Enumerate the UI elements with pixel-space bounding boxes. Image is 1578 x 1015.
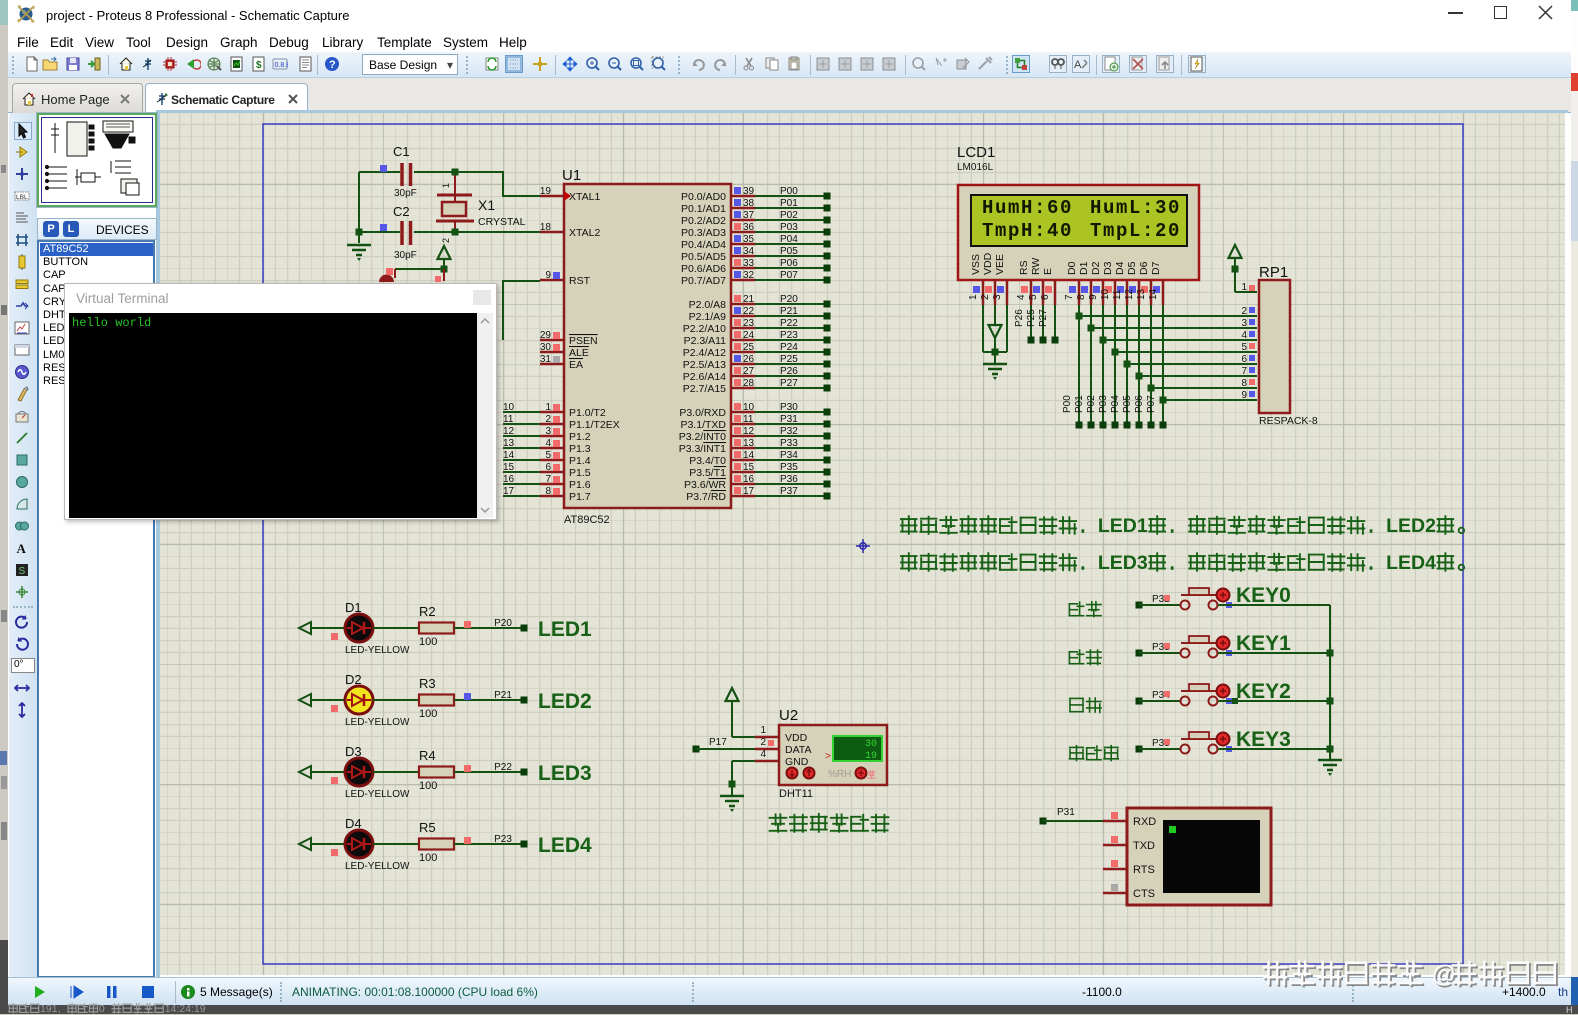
svg-text:17: 17 xyxy=(503,486,515,497)
svg-text:35: 35 xyxy=(743,234,755,245)
svg-text:KEY1: KEY1 xyxy=(1236,632,1291,655)
svg-text:P1.2: P1.2 xyxy=(569,431,591,443)
ground (keys) xyxy=(1318,759,1342,762)
svg-text:VDD: VDD xyxy=(785,732,808,744)
svg-text:P0.5/AD5: P0.5/AD5 xyxy=(681,251,726,263)
U1 pin 33 net P06 xyxy=(681,258,830,275)
svg-text:13: 13 xyxy=(743,438,755,449)
svg-text:21: 21 xyxy=(743,294,755,305)
svg-text:19: 19 xyxy=(865,751,877,762)
svg-text:D2: D2 xyxy=(1090,261,1102,275)
svg-text:%RH: %RH xyxy=(828,769,851,780)
svg-text:19: 19 xyxy=(540,186,552,197)
svg-text:P3.6/WR: P3.6/WR xyxy=(684,479,726,491)
U1 pin 32 net P07 xyxy=(681,270,830,287)
svg-text:9: 9 xyxy=(1241,390,1247,401)
svg-text:TmpH:40: TmpH:40 xyxy=(982,220,1073,242)
LCD net P27 xyxy=(1038,305,1059,344)
svg-text:1: 1 xyxy=(760,725,766,736)
svg-text:1: 1 xyxy=(441,183,451,188)
button KEY0 xyxy=(1069,584,1330,617)
svg-text:D4: D4 xyxy=(1114,261,1126,275)
canvas with schematic xyxy=(160,113,1565,975)
svg-text:13: 13 xyxy=(503,438,515,449)
svg-text:VEE: VEE xyxy=(994,254,1006,275)
resistor R4 xyxy=(373,748,454,792)
svg-text:LED2: LED2 xyxy=(1386,515,1436,537)
wire RST net xyxy=(502,280,504,340)
U1 pin 18 xyxy=(540,222,601,239)
Virtual Terminal window xyxy=(64,283,497,520)
svg-text:P05: P05 xyxy=(1122,395,1133,413)
svg-text:RXD: RXD xyxy=(1133,816,1156,828)
cursor marker xyxy=(856,539,870,553)
svg-text:P07: P07 xyxy=(780,270,798,281)
U1 pin 1 xyxy=(503,402,606,419)
LED D3 xyxy=(299,744,410,800)
U1 pin 27 net P26 xyxy=(683,366,831,383)
wire D3 to RP1 xyxy=(1098,305,1257,429)
svg-text:8: 8 xyxy=(1241,378,1247,389)
svg-text:A: A xyxy=(17,541,27,556)
U1 pin 13 net P33 xyxy=(679,438,831,455)
svg-text:37: 37 xyxy=(743,210,755,221)
svg-text:4: 4 xyxy=(760,749,766,760)
svg-text:P20: P20 xyxy=(780,294,798,305)
svg-text:LED2: LED2 xyxy=(538,690,592,713)
svg-text:P0.1/AD1: P0.1/AD1 xyxy=(681,203,726,215)
svg-text:P2.6/A14: P2.6/A14 xyxy=(683,371,726,383)
U1 pin 29 xyxy=(540,330,598,347)
svg-text:P0.2/AD2: P0.2/AD2 xyxy=(681,215,726,227)
svg-text:P26: P26 xyxy=(1014,309,1025,327)
svg-text:LED1: LED1 xyxy=(1098,515,1148,537)
U1 pin 5 xyxy=(503,450,591,467)
svg-text:U2: U2 xyxy=(779,707,798,724)
svg-text:P1.1/T2EX: P1.1/T2EX xyxy=(569,419,620,431)
svg-text:P27: P27 xyxy=(780,378,798,389)
svg-text:33: 33 xyxy=(743,258,755,269)
button KEY2 xyxy=(1070,680,1330,713)
RP1 pin 5 xyxy=(1241,342,1255,353)
svg-text:RTS: RTS xyxy=(1133,864,1155,876)
svg-text:P22: P22 xyxy=(780,318,798,329)
svg-text:P21: P21 xyxy=(494,690,512,701)
svg-text:14:24:19: 14:24:19 xyxy=(165,1003,206,1014)
toolbar xyxy=(8,52,1571,78)
svg-text:38: 38 xyxy=(743,198,755,209)
svg-text:6: 6 xyxy=(1040,294,1051,300)
svg-text:3: 3 xyxy=(545,426,551,437)
svg-text:28: 28 xyxy=(743,378,755,389)
svg-text:100: 100 xyxy=(419,708,437,720)
U1 pin 4 xyxy=(503,438,591,455)
U1 pin 12 net P32 xyxy=(679,426,831,443)
svg-text:P00: P00 xyxy=(780,186,798,197)
svg-text:P2.4/A12: P2.4/A12 xyxy=(683,347,726,359)
svg-text:5: 5 xyxy=(1028,294,1039,300)
svg-text:P3.4/T0: P3.4/T0 xyxy=(689,455,726,467)
svg-text:4: 4 xyxy=(1016,294,1027,300)
svg-text:P23: P23 xyxy=(780,330,798,341)
RP1 pin 2 xyxy=(1241,306,1255,317)
svg-text:191,: 191, xyxy=(40,1003,60,1014)
power arrow (RP1) xyxy=(1229,245,1242,258)
wire P23 xyxy=(454,834,528,848)
resistor R2 xyxy=(373,604,454,648)
svg-text:CTS: CTS xyxy=(1133,888,1155,900)
wire P21 xyxy=(454,690,528,704)
U1 pin 22 net P21 xyxy=(689,306,831,323)
left vertical toolbar xyxy=(9,113,37,977)
svg-text:11: 11 xyxy=(503,414,514,425)
terminal pin TXD xyxy=(1103,836,1155,852)
svg-text:LED1: LED1 xyxy=(538,618,592,641)
U1 pin 7 xyxy=(503,474,591,491)
svg-text:24: 24 xyxy=(743,330,755,341)
svg-text:P25: P25 xyxy=(1026,309,1037,327)
svg-text:D3: D3 xyxy=(345,744,362,759)
LCD net P26 xyxy=(1014,305,1035,344)
annotation line 2 xyxy=(901,553,917,571)
svg-text:LED-YELLOW: LED-YELLOW xyxy=(345,645,410,656)
svg-text:P0.6/AD6: P0.6/AD6 xyxy=(681,263,726,275)
LCD1 pin 13 D6 xyxy=(1136,261,1151,305)
svg-text:31: 31 xyxy=(540,354,552,365)
svg-text:P1.4: P1.4 xyxy=(569,455,591,467)
svg-text:34: 34 xyxy=(743,246,755,257)
svg-text:LBL: LBL xyxy=(16,194,28,201)
capacitor C2 xyxy=(359,231,400,233)
XTAL1 clock marker xyxy=(564,191,571,201)
svg-text:P2.2/A10: P2.2/A10 xyxy=(683,323,726,335)
svg-text:D3: D3 xyxy=(1102,261,1114,275)
svg-text:ALE: ALE xyxy=(569,347,589,359)
U1 pin 26 net P25 xyxy=(683,354,831,371)
svg-text:P27: P27 xyxy=(1038,309,1049,327)
power arrow (RST circuit) xyxy=(438,246,451,259)
devices list xyxy=(37,240,155,978)
svg-text:LM016L: LM016L xyxy=(957,162,994,173)
svg-text:P03: P03 xyxy=(1098,395,1109,413)
svg-text:8: 8 xyxy=(545,486,551,497)
svg-text:D1: D1 xyxy=(345,600,362,615)
svg-text:R2: R2 xyxy=(419,604,436,619)
svg-text:P06: P06 xyxy=(1134,395,1145,413)
svg-text:P3.1/TXD: P3.1/TXD xyxy=(680,419,726,431)
svg-text:P2.1/A9: P2.1/A9 xyxy=(689,311,727,323)
svg-text:26: 26 xyxy=(743,354,755,365)
svg-text:R5: R5 xyxy=(419,820,436,835)
svg-text:1: 1 xyxy=(968,294,979,300)
svg-text:4: 4 xyxy=(545,438,551,449)
svg-text:36: 36 xyxy=(743,222,755,233)
RP1 pin 7 xyxy=(1241,366,1255,377)
svg-text:10: 10 xyxy=(743,402,755,413)
svg-text:12: 12 xyxy=(503,426,515,437)
svg-text:RW: RW xyxy=(1030,258,1042,275)
svg-text:D7: D7 xyxy=(1150,261,1162,275)
svg-text:D1: D1 xyxy=(1078,261,1090,275)
svg-text:30pF: 30pF xyxy=(394,250,417,261)
ground (crystal) xyxy=(347,244,371,247)
svg-text:2: 2 xyxy=(545,414,551,425)
wire D0 to RP1 xyxy=(1062,305,1257,429)
resistor R3 xyxy=(373,676,454,720)
svg-text:KEY3: KEY3 xyxy=(1236,728,1291,751)
chip U1 AT89C52 body xyxy=(564,184,731,508)
capacitor C1 xyxy=(359,171,400,173)
RP1 pin 6 xyxy=(1241,354,1255,365)
svg-text:A: A xyxy=(1074,59,1082,71)
svg-text:DATA: DATA xyxy=(785,744,811,756)
svg-text:P04: P04 xyxy=(1110,395,1121,413)
left background sliver xyxy=(0,0,8,25)
svg-text:P30: P30 xyxy=(780,402,798,413)
svg-text:14: 14 xyxy=(743,450,755,461)
svg-text:KEY0: KEY0 xyxy=(1236,584,1291,607)
crystal X1 xyxy=(454,172,456,196)
LCD1 pin 8 D1 xyxy=(1076,261,1091,305)
U1 pin 2 xyxy=(503,414,620,431)
svg-text:RST: RST xyxy=(569,275,591,287)
svg-text:15: 15 xyxy=(503,462,515,473)
svg-text:30: 30 xyxy=(865,739,877,750)
svg-text:P1.5: P1.5 xyxy=(569,467,591,479)
svg-text:6: 6 xyxy=(545,462,551,473)
svg-text:R3: R3 xyxy=(419,676,436,691)
svg-text:0.8.8: 0.8.8 xyxy=(275,62,289,69)
svg-text:LCD1: LCD1 xyxy=(957,144,995,161)
svg-text:8: 8 xyxy=(1076,294,1087,300)
RP1 pin 8 xyxy=(1241,378,1255,389)
svg-text:16: 16 xyxy=(503,474,515,485)
svg-text:P2.0/A8: P2.0/A8 xyxy=(689,299,727,311)
svg-text:25: 25 xyxy=(743,342,755,353)
svg-text:39: 39 xyxy=(743,186,755,197)
svg-text:P1.7: P1.7 xyxy=(569,491,591,503)
svg-text:P35: P35 xyxy=(780,462,798,473)
svg-text:32: 32 xyxy=(743,270,755,281)
LED D4 xyxy=(299,816,410,872)
svg-text:?: ? xyxy=(329,59,336,71)
svg-text:LED-YELLOW: LED-YELLOW xyxy=(345,789,410,800)
svg-text:P0.4/AD4: P0.4/AD4 xyxy=(681,239,726,251)
DHT buttons xyxy=(787,768,798,779)
U2 pin 2 DATA xyxy=(755,748,779,751)
svg-text:LED-YELLOW: LED-YELLOW xyxy=(345,861,410,872)
wire C1-C2 left vertical xyxy=(358,172,360,243)
RP1 pin 9 xyxy=(1241,390,1255,401)
LED D1 xyxy=(299,600,410,656)
svg-text:P07: P07 xyxy=(1146,395,1157,413)
button KEY3 xyxy=(1069,728,1330,761)
U2 pin 1 VDD xyxy=(755,736,779,739)
svg-text:P17: P17 xyxy=(709,737,727,748)
svg-text:30: 30 xyxy=(540,342,552,353)
svg-text:DHT11: DHT11 xyxy=(779,788,813,800)
svg-text:100: 100 xyxy=(419,780,437,792)
ground (LCD) xyxy=(983,363,1007,366)
LCD screen xyxy=(971,195,1187,246)
U2 power arrow xyxy=(726,688,739,701)
U1 pin 28 net P27 xyxy=(683,378,831,395)
svg-text:5: 5 xyxy=(545,450,551,461)
svg-text:12: 12 xyxy=(743,426,755,437)
U1 pin 37 net P02 xyxy=(681,210,830,227)
svg-text:11: 11 xyxy=(743,414,754,425)
svg-text:100: 100 xyxy=(419,852,437,864)
svg-text:HumH:60: HumH:60 xyxy=(982,197,1073,219)
svg-text:1: 1 xyxy=(1241,282,1247,293)
svg-text:P03: P03 xyxy=(780,222,798,233)
svg-text:P05: P05 xyxy=(780,246,798,257)
U1 pin 19 xyxy=(540,186,601,203)
svg-text:30pF: 30pF xyxy=(394,188,417,199)
virtual terminal component xyxy=(1127,808,1271,905)
svg-text:P36: P36 xyxy=(780,474,798,485)
U1 pin 15 net P35 xyxy=(689,462,830,479)
svg-text:XTAL1: XTAL1 xyxy=(569,191,600,203)
svg-text:E: E xyxy=(1042,268,1054,275)
button KEY1 xyxy=(1069,632,1330,665)
svg-text:P2.5/A13: P2.5/A13 xyxy=(683,359,726,371)
svg-text:P1.0/T2: P1.0/T2 xyxy=(569,407,606,419)
svg-text:P3.3/INT1: P3.3/INT1 xyxy=(679,443,726,455)
svg-text:P33: P33 xyxy=(780,438,798,449)
LCD net P25 xyxy=(1026,305,1047,344)
svg-text:P32: P32 xyxy=(780,426,798,437)
svg-text:17: 17 xyxy=(743,486,755,497)
annotation line 1 xyxy=(901,516,917,534)
wire D6 to RP1 xyxy=(1134,305,1257,429)
svg-text:P2.7/A15: P2.7/A15 xyxy=(683,383,726,395)
svg-text:1: 1 xyxy=(545,402,551,413)
svg-text:27: 27 xyxy=(743,366,755,377)
svg-text:16: 16 xyxy=(743,474,755,485)
svg-text:P1.3: P1.3 xyxy=(569,443,591,455)
bottom strip xyxy=(0,1005,1578,1014)
svg-text:U1: U1 xyxy=(562,167,581,184)
label 温湿度传感器 xyxy=(770,814,787,831)
LCD1 pin 2 VDD xyxy=(980,252,995,305)
U1 pin 24 net P23 xyxy=(684,330,831,347)
LCD1 pin 14 D7 xyxy=(1148,261,1163,305)
U1 pin 16 net P36 xyxy=(684,474,831,491)
LCD1 pin 12 D5 xyxy=(1124,261,1139,305)
svg-text:CRYSTAL: CRYSTAL xyxy=(478,216,526,228)
U1 pin 9 xyxy=(540,270,591,287)
title bar xyxy=(8,0,1571,29)
object preview xyxy=(37,113,157,207)
LED D2 xyxy=(299,672,410,728)
wire P20 xyxy=(454,618,528,632)
svg-text:P31: P31 xyxy=(1057,807,1075,818)
svg-text:P26: P26 xyxy=(780,366,798,377)
canvas frame xyxy=(156,110,1568,113)
U1 pin 8 xyxy=(503,486,591,503)
U1 pin 6 xyxy=(503,462,591,479)
svg-text:13: 13 xyxy=(1136,288,1147,300)
svg-text:P02: P02 xyxy=(780,210,798,221)
reset cap fragment xyxy=(379,275,394,282)
svg-text:P3.2/INT0: P3.2/INT0 xyxy=(679,431,726,443)
svg-text:7: 7 xyxy=(1241,366,1247,377)
svg-text:2: 2 xyxy=(760,737,766,748)
svg-text:P21: P21 xyxy=(780,306,798,317)
svg-text:12: 12 xyxy=(1124,288,1135,300)
svg-text:P01: P01 xyxy=(1074,395,1085,413)
terminal pin RTS xyxy=(1103,860,1155,876)
svg-text:TXD: TXD xyxy=(1133,840,1155,852)
wire D4 to RP1 xyxy=(1110,305,1257,429)
LCD1 pin 9 D2 xyxy=(1088,261,1103,305)
svg-text:LED-YELLOW: LED-YELLOW xyxy=(345,717,410,728)
svg-text:$: $ xyxy=(256,60,262,71)
svg-text:KEY2: KEY2 xyxy=(1236,680,1291,703)
svg-text:10: 10 xyxy=(503,402,515,413)
svg-text:VDD: VDD xyxy=(982,252,994,275)
svg-text:AT89C52: AT89C52 xyxy=(564,514,610,526)
svg-text:LED3: LED3 xyxy=(1098,552,1148,574)
U1 pin 11 net P31 xyxy=(680,414,830,431)
U2 ground wiring xyxy=(732,760,755,762)
wire XTAL1 net xyxy=(455,171,504,173)
terminal screen xyxy=(1163,820,1260,893)
DHT display xyxy=(833,736,882,761)
right background sliver xyxy=(1571,0,1578,1014)
svg-text:2: 2 xyxy=(980,294,991,300)
LCD1 pin 6 E xyxy=(1040,268,1055,305)
svg-text:2: 2 xyxy=(1241,306,1247,317)
svg-text:P34: P34 xyxy=(780,450,798,461)
wire D2 to RP1 xyxy=(1086,305,1257,429)
svg-text:LED4: LED4 xyxy=(538,834,592,857)
U1 pin 31 xyxy=(540,354,583,371)
LCD1 pin 11 D4 xyxy=(1112,261,1127,305)
watermark xyxy=(1258,952,1576,998)
LCD power wiring xyxy=(982,305,984,352)
svg-text:P31: P31 xyxy=(780,414,798,425)
svg-text:3: 3 xyxy=(1241,318,1247,329)
svg-text:P22: P22 xyxy=(494,762,512,773)
svg-text:18: 18 xyxy=(540,222,552,233)
LCD1 pin 1 VSS xyxy=(968,254,983,305)
svg-text:X1: X1 xyxy=(478,197,495,213)
svg-text:XTAL2: XTAL2 xyxy=(569,227,600,239)
svg-text:14: 14 xyxy=(1148,288,1159,300)
svg-text:RP1: RP1 xyxy=(1259,264,1288,281)
svg-text:PSEN: PSEN xyxy=(569,335,598,347)
svg-text:LED3: LED3 xyxy=(538,762,592,785)
schematic sheet border xyxy=(263,124,1463,964)
wire P22 xyxy=(454,762,528,776)
wire D7 to RP1 xyxy=(1146,305,1257,429)
svg-text:7: 7 xyxy=(1064,294,1075,300)
tab bar xyxy=(8,78,1571,113)
svg-text:HumL:30: HumL:30 xyxy=(1090,197,1181,219)
key bus wire xyxy=(1329,605,1331,760)
U1 pin 10 net P30 xyxy=(679,402,830,419)
svg-text:S: S xyxy=(19,566,26,577)
svg-text:C2: C2 xyxy=(393,204,410,219)
svg-text:P3.5/T1: P3.5/T1 xyxy=(689,467,726,479)
svg-text:P02: P02 xyxy=(1086,395,1097,413)
U1 pin 21 net P20 xyxy=(689,294,831,311)
status bar xyxy=(8,977,1571,1005)
svg-text:D6: D6 xyxy=(1138,261,1150,275)
terminal P31 xyxy=(1040,818,1047,825)
